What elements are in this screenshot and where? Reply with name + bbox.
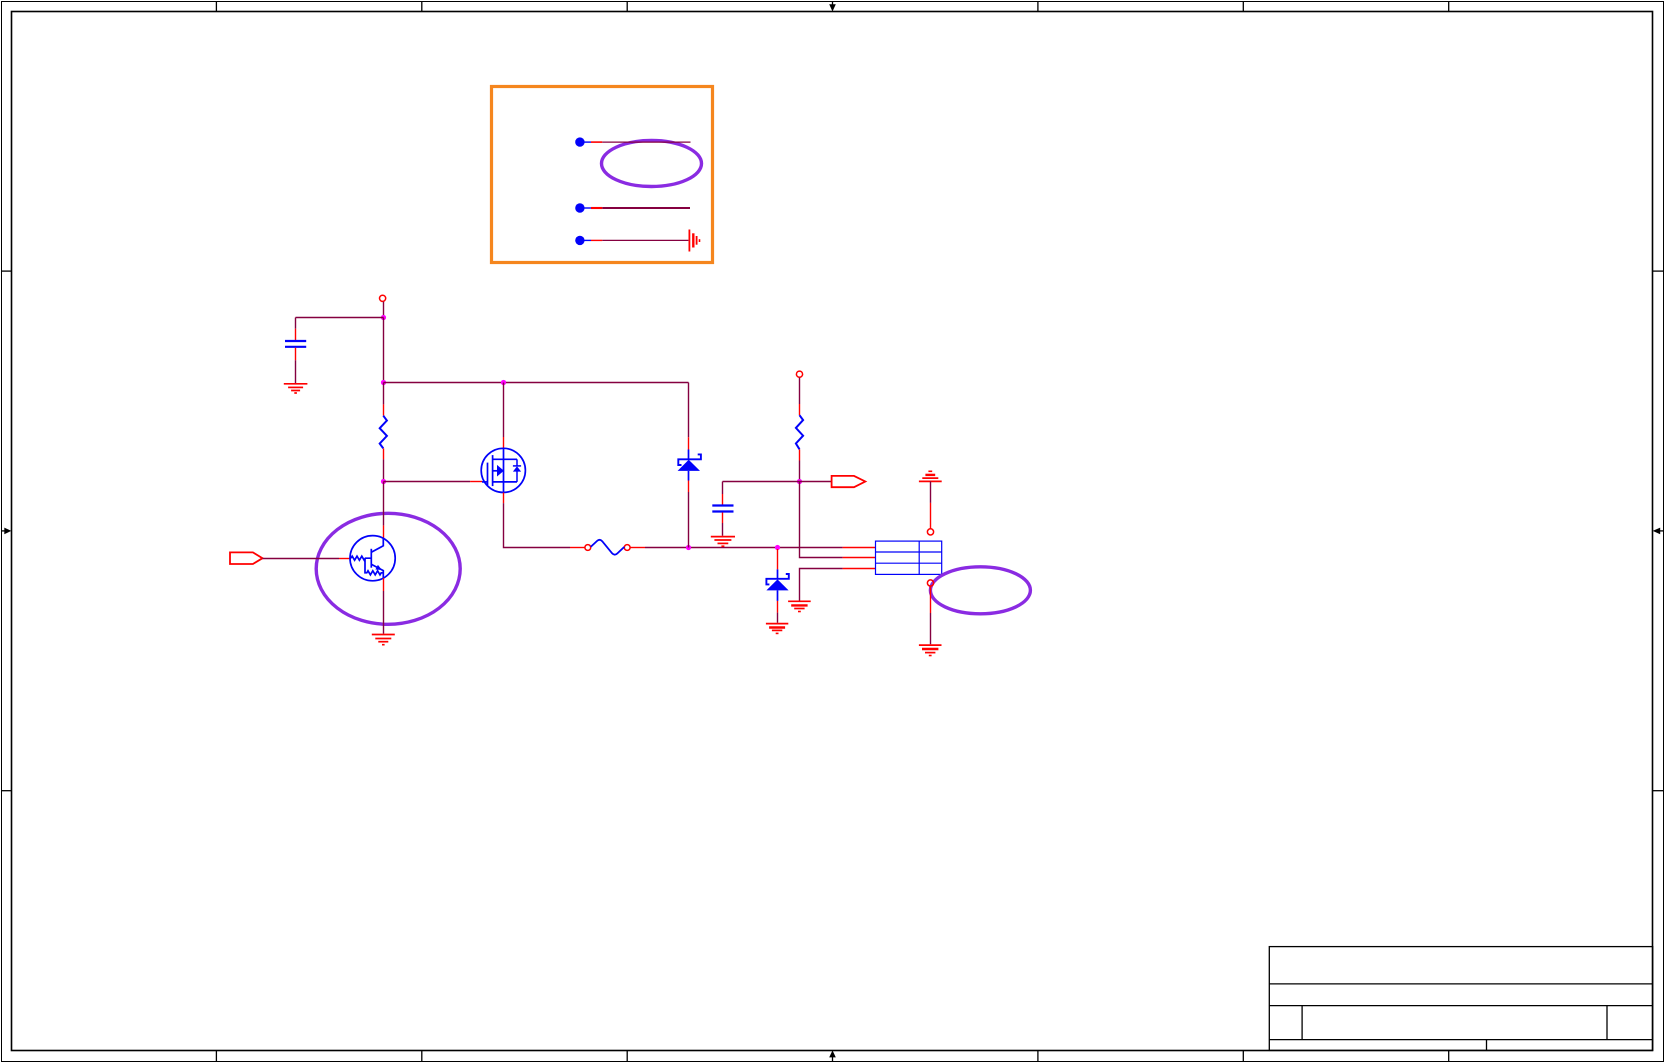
- title block outline: [1269, 947, 1652, 1051]
- bottom border tick 5: [1242, 1050, 1244, 1061]
- connector pin 2 lead: [843, 557, 876, 559]
- node junction B: [381, 380, 386, 385]
- wire IN tag to Q1 base: [263, 558, 340, 560]
- left border tick 1: [2, 270, 12, 272]
- mosfet Q2 drain pin: [503, 437, 505, 448]
- wire junction D down to Q1: [383, 482, 385, 526]
- diode D1 pin bottom: [688, 481, 690, 493]
- legend net 1 red pin: [591, 141, 602, 143]
- wire D2 to ground: [777, 613, 779, 623]
- TITLE BLOCK: [1269, 947, 1652, 1051]
- wire junction B down to R1: [383, 383, 385, 405]
- top border tick 2: [421, 1, 423, 12]
- top center arrow: [829, 1, 836, 12]
- bottom center arrow: [829, 1050, 836, 1061]
- top border tick 6: [1448, 1, 1450, 12]
- wire terminal to R2: [799, 378, 801, 404]
- wire junction G to output tag: [800, 481, 832, 483]
- wire C2 to ground: [722, 523, 724, 536]
- legend chassis ground: [689, 230, 699, 252]
- wire junction B to D1 corner: [384, 382, 689, 384]
- capacitor C2: [712, 506, 733, 512]
- capacitor C1 pin bottom: [295, 348, 297, 361]
- legend highlight ellipse: [602, 141, 702, 187]
- wire connector pin3 to ground: [800, 569, 843, 601]
- resistor R2 pin top: [799, 404, 801, 415]
- terminal P4: [927, 580, 933, 586]
- legend net 2 thick wire: [602, 207, 690, 209]
- wire down to C2: [722, 482, 724, 495]
- resistor R1 pin bottom: [383, 448, 385, 459]
- mosfet Q2 gate pin: [470, 481, 482, 483]
- resistor R2: [796, 415, 803, 449]
- node junction D: [381, 479, 386, 484]
- capacitor C1: [285, 341, 306, 347]
- capacitor C2 pin top: [722, 494, 724, 505]
- highlight ellipse over Q1: [316, 513, 460, 624]
- node junction C: [501, 380, 506, 385]
- top border tick 3: [626, 1, 628, 12]
- wire junction G down to connector pin2: [800, 482, 843, 558]
- wire R2 to junction G: [799, 461, 801, 482]
- bottom border tick 2: [421, 1050, 423, 1061]
- fuse F1 pin right: [630, 547, 645, 549]
- resistor R1 pin top: [383, 404, 385, 415]
- diode D1 pin top: [688, 437, 690, 449]
- wire junction A down to junction B: [383, 318, 385, 383]
- legend net 2 blue stub: [584, 207, 591, 209]
- ground below terminal P4: [919, 645, 942, 655]
- right border tick 2: [1653, 790, 1663, 792]
- port tag IN: [230, 552, 263, 564]
- fuse F1: [585, 540, 630, 555]
- capacitor C2 pin bottom: [722, 513, 724, 524]
- bottom border tick 4: [1037, 1050, 1039, 1061]
- node junction G: [797, 479, 802, 484]
- node junction A: [381, 315, 386, 320]
- wire junction G left: [723, 481, 800, 483]
- legend net 3 wire: [602, 239, 688, 241]
- terminal P4 red lead: [930, 586, 932, 613]
- legend net 2 blue dot: [575, 203, 584, 212]
- transistor Q1 digital npn: [350, 536, 395, 581]
- connector CN1: [876, 541, 942, 574]
- title block row line 1: [1269, 983, 1652, 985]
- wire D1 corner down: [688, 383, 690, 438]
- node junction F: [775, 545, 780, 550]
- port tag OUT: [832, 476, 866, 487]
- wire ground to terminal P3: [930, 481, 932, 503]
- title block cell divider c: [1486, 1040, 1488, 1051]
- transistor Q1 emitter pin: [383, 578, 385, 591]
- resistor R1: [380, 416, 387, 449]
- legend net 3 red pin: [591, 239, 602, 241]
- ground below Q1: [372, 635, 395, 645]
- legend net 1 wire: [602, 141, 690, 143]
- wire junction C down to mosfet: [503, 383, 505, 438]
- capacitor C1 pin top: [295, 329, 297, 340]
- mosfet Q2 source pin: [503, 493, 505, 504]
- right center arrow: [1653, 528, 1663, 535]
- bottom border tick 1: [215, 1050, 217, 1061]
- top border tick 5: [1242, 1, 1244, 12]
- wire mosfet source down: [504, 503, 571, 547]
- left border tick 2: [2, 790, 12, 792]
- mosfet Q2: [481, 448, 525, 492]
- bottom border tick 6: [1448, 1050, 1450, 1061]
- power terminal P1: [380, 295, 386, 301]
- wire fuse to connector: [645, 547, 843, 549]
- terminal P3 red lead: [930, 503, 932, 529]
- legend net 1 blue stub: [584, 141, 591, 143]
- wire terminal P4 to ground: [930, 613, 932, 644]
- wire terminal to junction: [383, 302, 385, 318]
- title block cell divider b: [1606, 1006, 1608, 1040]
- title block cell divider a: [1301, 1006, 1303, 1040]
- wire junction A left: [296, 317, 384, 319]
- diode D1 zener: [678, 450, 701, 481]
- diode D2 zener: [766, 569, 788, 601]
- diode D2 pin top: [777, 549, 779, 569]
- top border tick 1: [215, 1, 217, 12]
- legend net 3 blue dot: [575, 236, 584, 245]
- title block row line 2: [1269, 1005, 1652, 1007]
- ground below C1: [284, 384, 308, 393]
- connector pin 3 lead: [843, 568, 876, 570]
- LEGEND BOX: [492, 87, 713, 263]
- resistor R2 pin bottom: [799, 449, 801, 460]
- right border tick 1: [1653, 270, 1663, 272]
- fuse F1 pin left: [570, 547, 585, 549]
- highlight ellipse over P4: [930, 567, 1030, 614]
- wire D1 to junction E: [688, 492, 690, 548]
- connector pin 1 lead: [843, 547, 876, 549]
- ground at connector pin3: [788, 601, 811, 611]
- legend net 2 red pin: [591, 207, 602, 209]
- ground below C2: [711, 537, 735, 547]
- wire gate: [384, 481, 471, 483]
- ground below D2: [766, 624, 788, 634]
- terminal P3: [927, 529, 933, 535]
- diode D2 pin bottom: [777, 601, 779, 613]
- legend orange box: [492, 87, 713, 263]
- bottom border tick 3: [626, 1050, 628, 1061]
- wire C1 to ground: [295, 360, 297, 383]
- power terminal P2: [796, 371, 802, 377]
- top border tick 4: [1037, 1, 1039, 12]
- legend net 1 blue dot: [575, 137, 584, 146]
- transistor Q1 base pin: [339, 558, 351, 560]
- flipped ground above terminal P3: [919, 471, 942, 481]
- title block row line 3: [1269, 1039, 1652, 1041]
- legend net 3 blue stub: [584, 239, 591, 241]
- wire R1 to junction D: [383, 459, 385, 481]
- transistor Q1 collector pin: [383, 525, 385, 538]
- node junction E: [686, 545, 691, 550]
- CIRCUIT: [230, 295, 1030, 655]
- wire down to C1: [295, 318, 297, 329]
- wire Q1 emitter to ground: [383, 591, 385, 634]
- left center arrow: [2, 528, 12, 535]
